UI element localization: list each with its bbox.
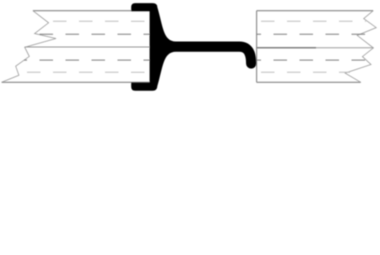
right panel bottom edge (257, 81, 361, 83)
left panel board edges (2, 11, 150, 83)
left panel bottom edge (2, 81, 150, 83)
left dark dash row upper (36, 33, 150, 35)
right panel board edges (257, 11, 374, 83)
right panel middle joint line (thin full) (257, 47, 374, 49)
left panel middle joint line (25, 46, 150, 48)
right panel top edge (257, 10, 374, 12)
right light dash row upper (257, 20, 366, 22)
right dark dash row lower (257, 59, 365, 61)
right dark dash row upper (257, 33, 368, 35)
right panel dashed core lines (257, 21, 368, 72)
left light dash row lower (18, 71, 150, 73)
right panel break zigzag (345, 11, 376, 83)
left panel dashed core lines (18, 21, 150, 72)
right light dash row lower (257, 71, 350, 73)
right panel middle joint line (heavy left part) (257, 47, 316, 49)
extrusion clamp body (lips, bar, trumpet flare) (131, 3, 256, 91)
left panel top edge (33, 10, 150, 12)
left dark dash row lower (24, 59, 150, 61)
left panel break zigzag (2, 11, 56, 83)
left light dash row upper (42, 20, 150, 22)
right panel left edge (256, 11, 258, 83)
